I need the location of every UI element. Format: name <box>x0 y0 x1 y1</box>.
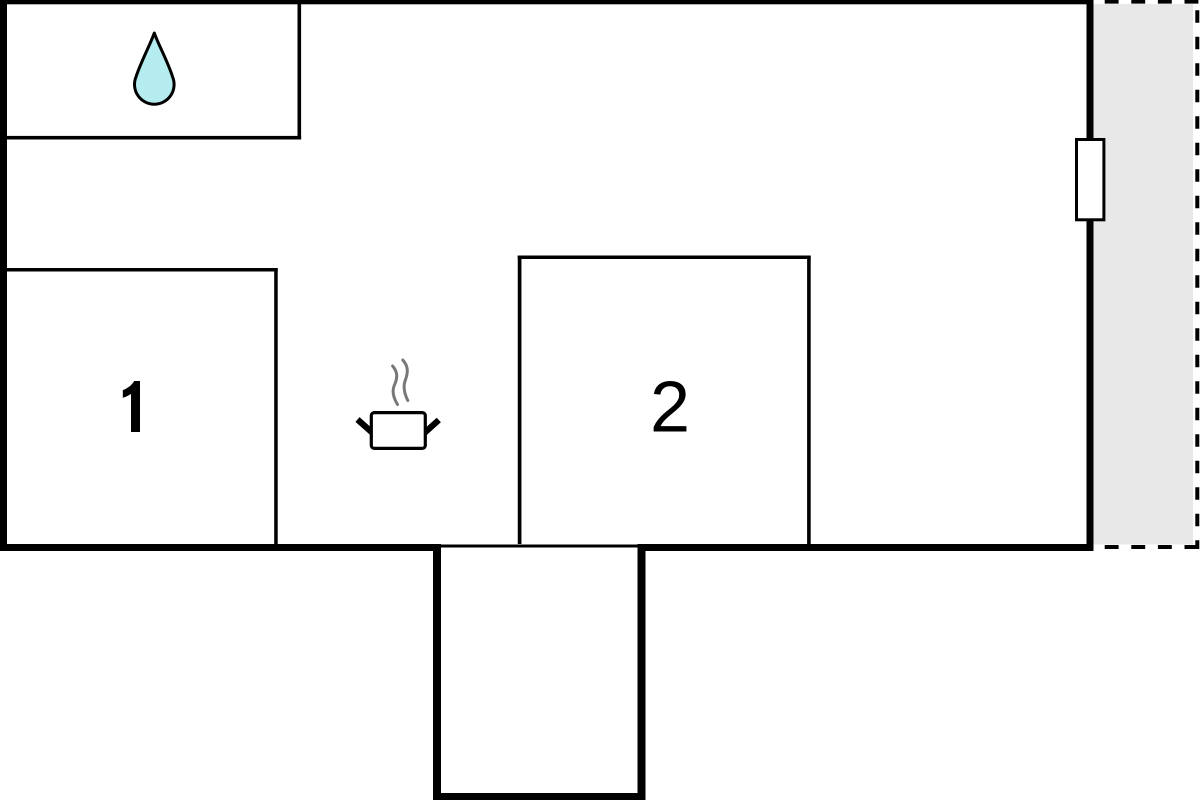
annex bottom wall <box>433 793 646 800</box>
terrace gray area fill <box>1094 4 1194 545</box>
room 1 partition right edge <box>274 268 278 544</box>
cooker pot body <box>371 413 425 449</box>
cooker pot right handle <box>424 420 439 433</box>
cooker pot steam left <box>393 366 398 405</box>
wall: bottom exterior left segment <box>0 544 441 551</box>
wall: bottom exterior right segment <box>638 544 1094 551</box>
room 1 label <box>123 381 140 432</box>
room 2 partition left edge <box>518 256 522 545</box>
room 1 partition top edge <box>0 268 278 272</box>
wall: right exterior <box>1087 0 1094 551</box>
wall: left exterior <box>0 0 7 551</box>
annex left wall <box>433 544 441 800</box>
opening threshold thin line <box>441 545 638 548</box>
svg-text:2: 2 <box>650 368 690 448</box>
water drop icon <box>135 33 175 104</box>
cooker pot steam right <box>403 360 408 401</box>
annex right wall <box>638 544 646 800</box>
terrace dashed border right <box>1195 0 1199 549</box>
cooker pot left handle <box>358 420 374 434</box>
terrace dashed border top <box>1092 0 1200 4</box>
bathroom partition right edge <box>298 0 302 140</box>
terrace dashed border bottom <box>1092 545 1200 549</box>
room 2 partition top edge <box>518 256 811 260</box>
wall: top exterior <box>0 0 1094 4</box>
room 2 partition right edge <box>807 256 811 545</box>
bathroom partition bottom edge <box>0 136 301 140</box>
window on right wall <box>1077 140 1104 220</box>
